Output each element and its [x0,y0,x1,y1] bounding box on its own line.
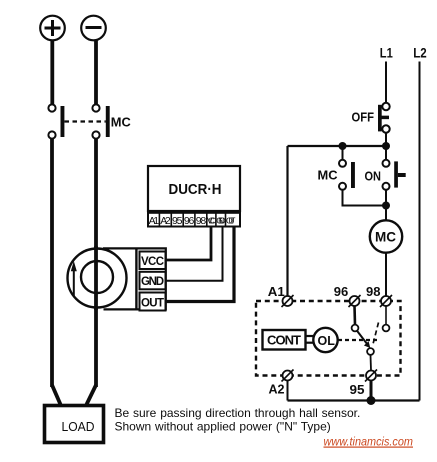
svg-text:www.tinamcis.com: www.tinamcis.com [324,435,414,449]
terminal - (DC source negative) [81,16,106,41]
junction dot below ON [382,202,390,210]
terminal 98 [380,295,392,307]
link CONT to OL [306,336,314,343]
terminal A1 [282,295,294,307]
svg-text:95: 95 [172,215,183,227]
svg-text:LOAD: LOAD [62,420,95,434]
terminal A2 [282,370,294,382]
current direction arrow [71,261,77,297]
svg-text:95: 95 [350,382,365,397]
wire right pole down through hall sensor [94,139,98,388]
wire terminal 95 down to bottom rail [370,381,373,401]
wire terminal 98 to contact point [385,306,387,325]
svg-text:L2: L2 [413,46,427,61]
coil MC [370,220,402,252]
DUCR-H terminal strip [148,213,240,227]
terminal 96 [349,295,361,307]
overload relay OL [313,328,337,352]
svg-text:GND: GND [216,216,225,226]
wire A1 branch down to terminal A1 [286,146,288,296]
wire terminal A2 down to bottom rail [287,381,289,401]
wire common to terminal 95 [370,355,373,371]
sensor body divider [135,248,137,309]
contact point NO (98 side) [383,325,390,332]
hall sensor body [103,248,166,309]
svg-text:98: 98 [196,215,207,227]
wire from - to MC contact [94,41,98,106]
pushbutton ON (NO) [383,160,406,190]
sensor pin box OUT [140,293,166,311]
svg-text:A1: A1 [149,215,160,227]
contactor MC main contact, left pole [48,104,64,138]
sensor pin box GND [140,272,166,290]
svg-text:L1: L1 [380,46,393,61]
svg-text:OUT: OUT [226,216,236,226]
svg-text:MC: MC [111,114,132,129]
contact MC auxiliary (NO) [339,160,355,190]
wire left into LOAD [52,385,61,405]
wire terminal 96 to contact point [353,306,356,325]
svg-text:OFF: OFF [352,110,375,125]
contact point NC (96 side) [352,325,359,332]
svg-text:A2: A2 [269,382,285,397]
wire VCC sensor to DUCR-H [167,227,212,260]
junction dot 95/L2 rail [367,396,376,405]
wire OFF to junction [385,133,387,161]
mechanical link dashed line between MC poles [65,120,106,122]
wire L2 down [419,62,421,401]
box LOAD [45,406,104,443]
wire right into LOAD [87,385,97,405]
svg-text:96: 96 [184,215,195,227]
svg-text:98: 98 [366,284,381,299]
hall sensor CT core (donut) [68,249,127,308]
contact blade common to 96 [357,331,371,349]
wire L1 down to OFF [385,62,387,103]
svg-text:A2: A2 [160,215,171,227]
wire horizontal branch to A1 [288,145,387,147]
dashed actuator line OL to contact [338,339,378,341]
svg-text:DUCR·H: DUCR·H [169,182,222,198]
box CONT [263,330,306,350]
svg-text:CONT: CONT [267,333,301,348]
svg-text:96: 96 [334,284,349,299]
svg-text:MC: MC [318,167,339,182]
wire left pole down to LOAD [50,139,54,388]
junction dot at ON column [382,142,390,150]
wire through hall sensor [94,246,98,310]
common contact point [367,348,374,355]
svg-text:Shown without applied power (": Shown without applied power ("N" Type) [115,420,331,434]
wire MC aux bottom to ON bottom [343,190,387,206]
bottom rail wire A2 to L2 [288,399,420,401]
svg-text:OL: OL [318,334,336,348]
wire down to MC aux contact [342,146,344,160]
svg-text:VCC: VCC [207,216,216,226]
sensor pin box VCC [140,252,166,270]
dashed alternate blade position to 98 [373,323,379,347]
svg-text:MC: MC [375,230,396,245]
wire ON bottom to coil [385,190,387,221]
terminal + (DC source positive) [40,16,65,41]
svg-text:VCC: VCC [141,256,164,268]
contactor MC main contact, right pole [92,104,109,138]
svg-text:GND: GND [141,276,164,288]
junction dot at MC branch [339,142,347,150]
svg-text:Be sure passing direction thro: Be sure passing direction through hall s… [115,406,361,420]
wire GND sensor to DUCR-H [167,227,223,281]
dashed boundary box of DUCR-H internals [256,301,401,376]
svg-text:ON: ON [365,168,382,183]
wire coil to terminal 98 [385,253,387,296]
relay DUCR-H box [148,166,240,211]
terminal 95 [365,370,377,382]
svg-text:A1: A1 [268,284,285,299]
svg-text:OUT: OUT [141,297,164,309]
pushbutton OFF (NC) [378,103,390,133]
wire OUT sensor to DUCR-H [167,227,235,302]
wire from + to MC contact [50,41,54,106]
